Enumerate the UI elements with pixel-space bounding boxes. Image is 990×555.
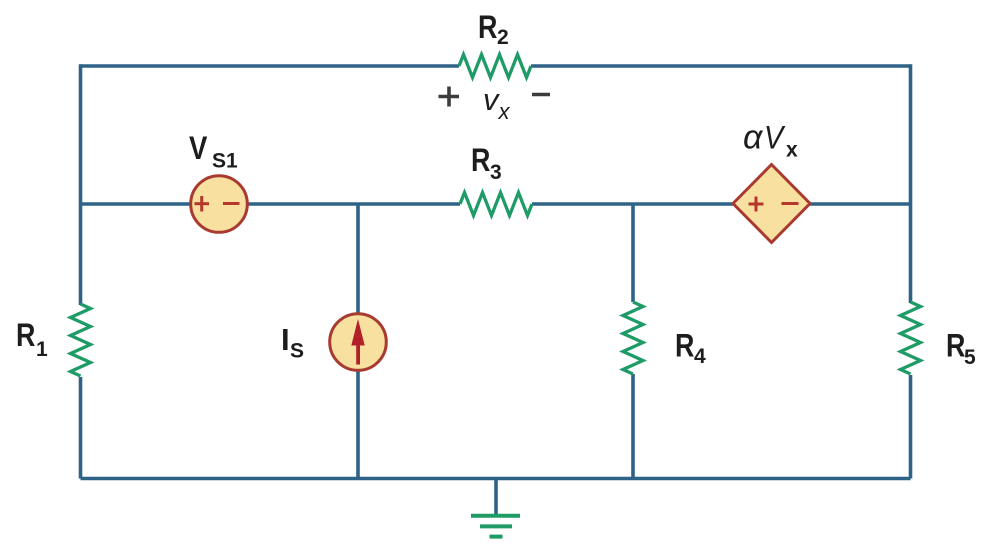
svg-text:α: α [743,119,764,157]
wire: middle from diamond to right rail [808,202,911,206]
label plus of vx [439,87,460,107]
current source Is [330,314,387,371]
wire: left vertical upper (corner to R1) [79,64,83,305]
svg-text:S: S [290,340,304,363]
resistor R1 [71,304,91,376]
svg-text:I: I [281,322,290,357]
wire: top from R2 to right corner [531,64,911,68]
svg-text:v: v [483,82,500,117]
wire: middle from R3 to diamond [532,202,735,206]
svg-text:S1: S1 [212,150,238,173]
wire: top from left corner to R2 [81,64,460,68]
dependent source aVx (diamond) [733,165,810,243]
svg-text:5: 5 [964,346,976,369]
wire: Is branch lower (Is to bottom rail) [356,370,360,479]
svg-text:V: V [189,131,207,166]
arrow of Is [351,319,364,365]
minus of aVx [782,202,799,205]
label VS1 [189,131,207,166]
svg-text:R: R [478,10,497,46]
wire: right vertical lower (R5 to bottom corner) [909,375,913,479]
plus of aVx [749,197,764,212]
label R2 [478,10,497,46]
svg-text:4: 4 [694,345,706,368]
svg-text:R: R [471,143,490,179]
label R3 [471,143,490,179]
wire: middle from Vs1 to R3 [246,202,460,206]
svg-text:R: R [675,328,694,364]
svg-text:2: 2 [497,26,509,49]
label R5 [946,328,965,364]
plus of VS1 [195,196,210,212]
wire: right vertical upper (top corner to R5) [909,64,913,303]
resistor R5 [901,302,921,374]
svg-text:x: x [498,99,511,124]
wire: R4 branch upper (middle wire to R4) [631,204,635,302]
wire: R4 branch lower (R4 to bottom rail) [631,374,635,479]
wire: bottom rail [81,477,911,481]
wire: ground stub [494,479,498,516]
ground [471,516,520,537]
voltage source VS1 [191,176,248,233]
svg-text:V: V [764,120,786,156]
minus of VS1 [223,202,240,205]
resistor R4 [623,302,643,374]
svg-text:1: 1 [36,338,48,361]
label R4 [675,328,694,364]
label R1 [16,318,35,354]
svg-text:3: 3 [490,161,502,184]
resistor R3 [460,193,532,216]
svg-text:x: x [786,139,798,162]
svg-text:R: R [16,318,35,354]
wire: left vertical lower (R1 to bottom corner) [79,377,83,479]
wire: middle from left rail to Vs1 [81,202,193,206]
resistor R2 [459,55,531,78]
wire: Is branch upper (middle wire to Is) [356,204,360,314]
label minus of vx [532,93,550,97]
svg-text:R: R [946,328,965,364]
